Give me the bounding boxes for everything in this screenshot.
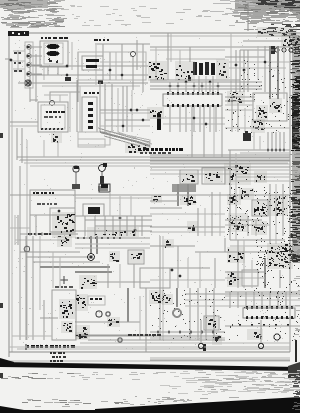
capacitor C35 <box>57 236 72 247</box>
bottom-right corner black band <box>95 397 300 413</box>
coil L10 outline <box>50 208 75 232</box>
capacitor C45 <box>162 294 173 305</box>
coil L9 <box>204 169 223 183</box>
capacitor C2 mark <box>65 77 71 81</box>
wire <box>26 140 28 340</box>
label pin row 1 <box>14 52 21 54</box>
wire <box>225 295 300 297</box>
wire <box>283 80 285 99</box>
wire <box>21 128 23 163</box>
wire <box>243 50 245 92</box>
junction <box>217 85 220 88</box>
wire <box>30 82 148 84</box>
wire <box>100 61 146 63</box>
variable capacitor VC1 <box>25 80 31 86</box>
wire <box>30 99 38 101</box>
wire <box>126 216 128 236</box>
connector J1 pin 3 <box>27 63 32 68</box>
wire <box>244 108 246 132</box>
transistor Q2 cluster <box>180 195 196 205</box>
resistor R20 cluster <box>227 271 241 287</box>
junction <box>201 85 204 88</box>
junction <box>66 65 69 68</box>
coil L11 <box>253 201 267 216</box>
bottom-left corner black wedge <box>0 406 24 413</box>
wire <box>177 184 179 206</box>
wire <box>71 42 73 70</box>
wire <box>26 256 90 258</box>
junction dots <box>157 331 215 334</box>
wire <box>176 288 178 307</box>
wire <box>150 160 290 162</box>
wire <box>35 54 37 102</box>
wire <box>199 252 201 288</box>
power rectifier D10 cluster <box>267 243 293 269</box>
wire <box>15 239 70 241</box>
wire <box>225 127 290 129</box>
detector coil L5 cluster <box>147 107 164 119</box>
wire <box>185 82 187 92</box>
wire <box>32 236 34 340</box>
junction <box>136 109 139 112</box>
resistor R22 <box>61 321 73 333</box>
balun T8 cluster <box>257 27 297 37</box>
wire <box>59 257 61 288</box>
coil L14 <box>205 317 218 329</box>
wire <box>121 44 123 80</box>
wire <box>13 50 25 52</box>
wire <box>5 58 11 60</box>
wire <box>169 107 171 132</box>
wire <box>141 216 143 236</box>
wire <box>185 299 300 301</box>
IF transformer T4 body <box>205 62 209 75</box>
wire <box>95 45 97 85</box>
bus labels <box>28 233 51 235</box>
IC U1 pins <box>41 128 63 130</box>
wire <box>247 50 249 92</box>
page edge black bar <box>0 362 300 371</box>
wire <box>41 232 43 236</box>
label AGC <box>55 286 73 288</box>
transformer T1 primary winding <box>47 44 60 49</box>
wire <box>150 157 290 159</box>
wire <box>98 128 150 142</box>
wire <box>112 216 114 236</box>
wire <box>96 236 98 254</box>
wire <box>150 166 290 168</box>
wire <box>203 107 205 157</box>
wire <box>104 216 106 236</box>
wire <box>17 215 19 245</box>
junction <box>185 81 188 84</box>
label TU-4040 <box>41 37 68 39</box>
capacitor C38 <box>164 239 174 248</box>
wire <box>150 359 290 361</box>
connector J1 pin 2 mark <box>27 55 30 57</box>
wire <box>150 79 240 81</box>
junction <box>58 210 61 213</box>
wire <box>271 132 273 150</box>
wire <box>275 184 277 244</box>
wire <box>239 50 241 92</box>
wire <box>277 46 279 80</box>
wire <box>102 44 104 80</box>
wire <box>29 87 31 102</box>
wire <box>133 264 135 288</box>
shielded cable gland <box>172 184 196 192</box>
label IF 455kHz <box>37 203 57 205</box>
IC U1 sub label <box>44 116 61 118</box>
resistor R2 mark <box>98 80 103 84</box>
IC U3 pins bottom <box>246 316 293 319</box>
wire <box>107 264 109 288</box>
wire <box>150 85 262 87</box>
resistor R40 <box>212 335 222 345</box>
wire <box>75 334 150 336</box>
wire <box>264 46 266 92</box>
connector J1 pin 3 mark <box>27 64 30 66</box>
wire <box>229 150 231 240</box>
wire <box>283 132 285 150</box>
wire <box>57 67 59 75</box>
IF transformer T2 body <box>193 62 197 75</box>
wire <box>17 156 290 158</box>
transistor Q6 cluster <box>149 290 163 304</box>
wire <box>240 152 290 154</box>
wire <box>229 292 231 308</box>
ratio detector D8 cluster <box>125 143 150 153</box>
connector J1 pin 5 <box>27 81 32 86</box>
junction <box>279 149 282 152</box>
junction <box>66 74 69 77</box>
connector J1 pin 1 mark <box>27 46 30 48</box>
wire <box>136 40 138 70</box>
wire <box>105 119 150 121</box>
wire <box>217 82 219 92</box>
capacitor C50 <box>75 332 88 340</box>
wire <box>10 194 30 196</box>
wire <box>30 65 148 67</box>
wire <box>150 200 178 202</box>
wire <box>185 305 300 307</box>
wire <box>204 208 206 236</box>
wire <box>69 92 71 132</box>
capacitors C30-C33 cluster <box>228 213 248 232</box>
wire <box>39 236 41 310</box>
wire <box>18 82 25 84</box>
wire <box>119 216 121 236</box>
alignment cross mark <box>60 276 68 284</box>
wire <box>163 123 225 125</box>
wire <box>150 357 290 359</box>
wire <box>20 233 78 235</box>
wire <box>191 107 193 157</box>
junction <box>275 149 278 152</box>
wire <box>99 82 101 132</box>
wire <box>212 76 214 92</box>
wire <box>231 95 233 132</box>
wire <box>10 194 290 196</box>
wire <box>20 159 290 161</box>
wire <box>279 270 281 288</box>
wire <box>269 184 271 244</box>
wire <box>225 96 255 98</box>
wire <box>29 215 31 236</box>
wire <box>94 216 96 236</box>
capacitor C22 <box>254 171 267 183</box>
coil L8 outline <box>180 170 198 184</box>
wire <box>17 348 290 350</box>
wire <box>150 267 210 269</box>
wire <box>122 86 124 132</box>
wire <box>277 80 279 99</box>
wire <box>225 291 300 293</box>
wire <box>75 197 152 199</box>
wire <box>230 239 285 241</box>
wire <box>150 173 290 175</box>
wire <box>127 288 129 322</box>
wire <box>77 52 79 102</box>
wire <box>177 82 179 92</box>
wire <box>14 215 16 245</box>
wire <box>132 56 134 90</box>
wire <box>230 33 232 92</box>
feedback loop wiring <box>78 132 110 145</box>
junction <box>271 149 274 152</box>
wire <box>109 52 111 80</box>
wire <box>32 82 42 84</box>
wire <box>179 50 181 64</box>
wire <box>150 231 225 233</box>
junction node A <box>131 52 136 57</box>
wire <box>225 104 253 106</box>
wire <box>75 215 152 217</box>
junction <box>122 125 125 128</box>
wire <box>243 240 245 288</box>
IC U1 label <box>46 111 65 113</box>
wire <box>145 288 147 352</box>
wire <box>109 192 111 216</box>
IC U2 pins top <box>167 92 219 95</box>
page edge right blob <box>288 362 300 382</box>
wire <box>32 55 42 57</box>
wire <box>169 82 171 92</box>
wire <box>57 142 59 157</box>
wire <box>275 132 277 150</box>
IC U1 inner outline <box>41 105 65 129</box>
wire <box>225 251 280 253</box>
wire <box>150 169 290 171</box>
wire <box>85 219 152 221</box>
wire <box>115 52 117 80</box>
AM tuner section outline <box>78 52 146 80</box>
wire <box>269 292 271 308</box>
capacitor C36 <box>109 251 120 262</box>
resistor R18 cluster <box>251 221 267 235</box>
board name label AM-FM TUNER <box>8 31 29 36</box>
connector J1 pin 5 mark <box>27 82 30 84</box>
wire <box>19 166 21 340</box>
wire <box>117 88 119 132</box>
wire <box>35 215 37 236</box>
bus junction dots <box>77 237 121 239</box>
junction <box>243 69 246 72</box>
wire <box>130 196 132 216</box>
label box <box>88 296 105 305</box>
wire <box>52 252 54 288</box>
capacitor C25 <box>151 195 162 203</box>
wire <box>205 76 207 92</box>
test point TP1 <box>24 246 30 252</box>
wire <box>255 220 257 236</box>
junction <box>119 217 122 220</box>
wire <box>159 236 161 340</box>
junction <box>193 85 196 88</box>
crystal X1 <box>99 184 110 192</box>
wire <box>20 251 80 253</box>
wire <box>225 224 270 226</box>
wire <box>187 258 189 288</box>
junction <box>177 85 180 88</box>
wire <box>236 176 290 178</box>
diode D9 cluster <box>227 194 241 205</box>
wire <box>230 180 290 182</box>
AGC diodes D6 D7 <box>227 91 245 104</box>
wire <box>75 247 150 249</box>
wire <box>228 149 290 151</box>
wire <box>201 82 203 92</box>
wire <box>150 49 225 51</box>
wire <box>104 136 140 146</box>
wire <box>195 238 225 252</box>
wire <box>295 340 297 362</box>
wire <box>150 35 300 37</box>
wire <box>261 292 263 308</box>
wire <box>43 300 45 340</box>
wire <box>205 288 207 340</box>
junction <box>142 119 145 122</box>
wire <box>75 243 150 245</box>
wire <box>25 236 27 340</box>
junction <box>130 109 133 112</box>
wire <box>44 94 68 96</box>
shield box tuner front-end outline <box>253 93 287 121</box>
wire <box>111 84 113 132</box>
connector J1 pin 2 <box>27 54 32 59</box>
transformer T1 core marks <box>48 58 58 63</box>
wire <box>9 346 290 348</box>
wire loop <box>78 139 105 147</box>
wire <box>253 132 255 150</box>
wire <box>13 60 25 62</box>
wire <box>150 213 225 215</box>
frame right border wire <box>289 33 291 352</box>
wire <box>166 58 225 60</box>
coil L7 <box>251 119 265 133</box>
transistor Q7 <box>274 334 280 340</box>
frame bottom border wire <box>9 351 290 353</box>
wire <box>47 67 49 75</box>
note line 2 <box>52 356 66 358</box>
connector J1 pin 4 <box>27 72 32 77</box>
label oscillator <box>84 92 99 94</box>
wire <box>185 107 187 132</box>
wire <box>84 216 86 236</box>
wire <box>225 271 265 273</box>
junction <box>217 337 220 340</box>
wire <box>43 67 45 80</box>
wire <box>245 292 247 308</box>
IC U3 audio output outline <box>243 308 295 318</box>
wire <box>240 49 274 51</box>
wire <box>16 128 18 160</box>
registration mark 2 <box>0 303 3 308</box>
resistor R15 <box>187 221 198 231</box>
wire <box>162 236 164 340</box>
wire <box>119 196 121 216</box>
wire <box>12 335 52 337</box>
wire <box>139 296 141 340</box>
trimmer VR4 rings <box>96 311 110 317</box>
page bottom edge strip <box>0 410 300 413</box>
wire <box>200 320 202 343</box>
wire <box>40 266 110 268</box>
wire <box>90 236 92 254</box>
wire <box>267 132 269 150</box>
wire <box>269 46 271 80</box>
wire <box>155 47 157 80</box>
wire <box>150 245 195 247</box>
wire <box>229 67 286 69</box>
wire <box>198 76 200 92</box>
coil L14 outline <box>204 316 219 330</box>
wire <box>225 277 265 279</box>
wire <box>260 320 262 343</box>
junction <box>134 229 137 232</box>
wire <box>150 331 225 333</box>
wire <box>225 56 265 58</box>
lamp PL2 <box>258 343 263 348</box>
wire <box>142 44 144 92</box>
test point tick <box>203 344 206 351</box>
resistors R10-R14 row <box>87 227 139 237</box>
wire <box>247 3 249 31</box>
junction ring <box>118 338 122 342</box>
electrolytic capacitor C20 body <box>157 114 161 130</box>
wire <box>257 46 259 80</box>
junction <box>109 69 112 72</box>
wire <box>282 184 284 236</box>
wire <box>88 339 225 341</box>
note line 1 <box>50 352 65 354</box>
connector J1 pin 1 <box>27 45 32 50</box>
wire <box>10 125 38 127</box>
page edge left wedge <box>0 358 14 367</box>
junction <box>169 85 172 88</box>
junction <box>179 275 182 278</box>
wire <box>32 73 42 75</box>
junction <box>205 123 208 126</box>
frame top border wire <box>9 32 300 34</box>
wire <box>30 165 150 167</box>
wire <box>189 288 191 340</box>
wire <box>193 82 195 92</box>
wire <box>43 140 45 157</box>
junction <box>283 149 286 152</box>
wire <box>17 50 19 72</box>
transformer T1 inner box <box>44 43 63 64</box>
